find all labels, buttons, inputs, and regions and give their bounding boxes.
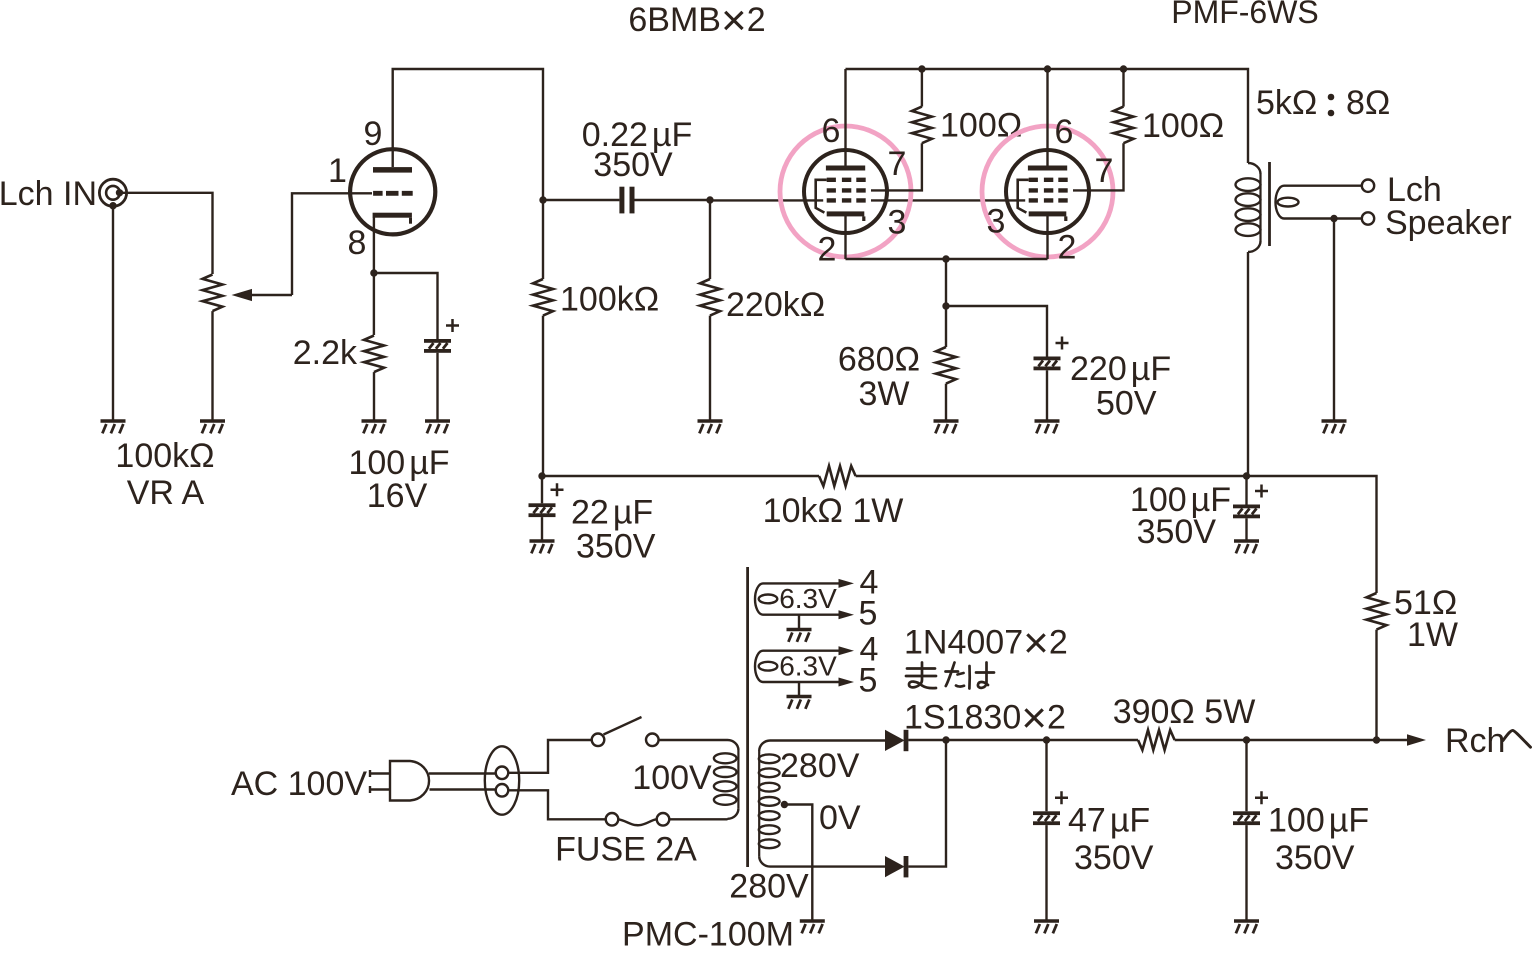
svg-text:350V: 350V bbox=[1275, 839, 1355, 877]
svg-text:Lch IN: Lch IN bbox=[0, 175, 97, 213]
svg-text:100kΩ: 100kΩ bbox=[115, 437, 214, 475]
node plate/cap junction bbox=[539, 196, 546, 203]
tube V3 halo bbox=[982, 126, 1113, 257]
wire grid bus between tubes bbox=[871, 199, 1025, 201]
pentode V2 (6BMB) bbox=[804, 150, 887, 233]
capacitor 47uF 350V bbox=[1033, 791, 1068, 825]
node: jack sleeve dot bbox=[109, 202, 116, 209]
ground (heater 2) bbox=[787, 697, 812, 709]
wire 100uF top bbox=[1245, 740, 1247, 811]
wire 2.2k to ground bbox=[373, 372, 375, 421]
svg-text:5: 5 bbox=[859, 595, 878, 633]
svg-text:6: 6 bbox=[1055, 113, 1074, 151]
wire cathode bus bbox=[846, 258, 1048, 260]
wire fuse to primary bbox=[669, 818, 727, 820]
wire 220k to ground bbox=[709, 316, 711, 421]
wire secondary to ground bbox=[1333, 219, 1335, 422]
PT core bbox=[746, 567, 749, 867]
node cathode RC dot bbox=[942, 302, 949, 309]
svg-text:100kΩ: 100kΩ bbox=[560, 281, 659, 319]
label 5kΩ : 8Ω bbox=[1256, 84, 1390, 122]
PT primary winding bbox=[714, 740, 739, 819]
capacitor 100uF 350V (upper) bbox=[1233, 485, 1268, 519]
svg-text:350V: 350V bbox=[1137, 513, 1217, 551]
svg-text:350V: 350V bbox=[593, 146, 673, 184]
svg-text:1W: 1W bbox=[1407, 616, 1458, 654]
resistor 10kΩ 1W bbox=[819, 466, 856, 486]
svg-text:AC 100V: AC 100V bbox=[231, 765, 367, 803]
svg-text:50V: 50V bbox=[1096, 385, 1157, 423]
ground (220k) bbox=[698, 421, 723, 433]
wire cable to fuse bbox=[508, 790, 605, 819]
B+ mid rail right bbox=[856, 476, 1377, 593]
wire heater2 ground stub bbox=[798, 682, 800, 697]
wire plug to cable bbox=[429, 772, 496, 774]
wire jack to potentiometer top bbox=[120, 193, 213, 274]
wire upper 100uF to ground bbox=[1245, 518, 1247, 541]
OPT primary winding bbox=[1236, 163, 1261, 252]
wire V3 cathode lead bbox=[1046, 216, 1048, 260]
svg-text:100V: 100V bbox=[632, 759, 712, 797]
svg-text:390Ω 5W: 390Ω 5W bbox=[1113, 693, 1256, 731]
wire cathode junction to 2.2k bbox=[373, 273, 375, 335]
input jack J1 bbox=[99, 179, 126, 206]
node rail dot 3 bbox=[1120, 65, 1127, 72]
wire plate node down to 100k bbox=[542, 200, 544, 279]
wire grid bus into output tubes bbox=[710, 199, 823, 201]
wire center tap to ground bbox=[784, 805, 812, 922]
capacitor 22uF 350V bbox=[529, 483, 564, 517]
OPT secondary winding bbox=[1276, 186, 1362, 219]
wire heater1 ground stub bbox=[798, 615, 800, 630]
svg-text:8Ω: 8Ω bbox=[1346, 84, 1390, 122]
wire 22uF top bbox=[541, 476, 543, 503]
wire triode cathode down bbox=[373, 217, 375, 273]
resistor 51Ω 1W bbox=[1367, 593, 1387, 630]
svg-text:280V: 280V bbox=[729, 868, 809, 906]
svg-text:680Ω: 680Ω bbox=[838, 341, 920, 379]
wire V2 screen to 100R bbox=[871, 143, 922, 190]
speaker terminal top bbox=[1362, 180, 1374, 192]
heater winding 2 bbox=[755, 651, 839, 682]
wire V3 plate lead bbox=[1046, 69, 1048, 166]
resistor 2.2k bbox=[364, 336, 384, 373]
speaker terminal bottom bbox=[1362, 212, 1374, 224]
svg-text:9: 9 bbox=[364, 115, 383, 153]
svg-text:6.3V: 6.3V bbox=[779, 651, 837, 682]
resistor 100kΩ plate load bbox=[533, 279, 553, 316]
B+ output rail bbox=[908, 739, 1138, 741]
wire 47uF to ground bbox=[1045, 825, 1047, 921]
svg-text:280V: 280V bbox=[780, 747, 860, 785]
HV winding bottom wire bbox=[770, 865, 885, 867]
wire V3 screen to 100R bbox=[1073, 143, 1124, 190]
svg-text:6.3V: 6.3V bbox=[779, 583, 837, 614]
svg-text:220kΩ: 220kΩ bbox=[726, 286, 825, 324]
ground (potentiometer) bbox=[200, 421, 225, 433]
heater winding 1 bbox=[755, 583, 839, 614]
diode D2 bbox=[885, 856, 908, 877]
wire 100uF to ground bbox=[1245, 825, 1247, 921]
svg-text:1S1830×2: 1S1830×2 bbox=[904, 694, 1066, 743]
wire grid node down to 220k bbox=[709, 200, 711, 279]
node mid rail right dot bbox=[1243, 472, 1250, 479]
svg-text:3: 3 bbox=[888, 204, 907, 242]
svg-text:350V: 350V bbox=[1074, 839, 1154, 877]
label Rch-he bbox=[1445, 722, 1531, 760]
B+ top rail bbox=[846, 69, 1249, 163]
svg-text:0V: 0V bbox=[819, 799, 861, 837]
svg-text:350V: 350V bbox=[576, 528, 656, 566]
node center tap dot bbox=[781, 801, 788, 808]
arrow to pin 4 bbox=[839, 579, 855, 588]
svg-text:5kΩ: 5kΩ bbox=[1256, 84, 1317, 122]
B+ output rail right bbox=[1175, 739, 1407, 741]
wire cathode down bbox=[945, 259, 947, 306]
svg-text:Rch: Rch bbox=[1445, 722, 1505, 760]
label mataha (or) bbox=[906, 663, 994, 689]
svg-text:16V: 16V bbox=[367, 477, 428, 515]
wire 47uF top bbox=[1045, 740, 1047, 811]
HV winding top wire bbox=[770, 739, 885, 741]
OPT core bbox=[1268, 162, 1271, 246]
fuse F1 bbox=[606, 813, 670, 826]
ground (680R) bbox=[934, 421, 959, 433]
svg-text:3W: 3W bbox=[859, 375, 910, 413]
wire 220uF to ground bbox=[1046, 370, 1048, 421]
ground (center tap) bbox=[800, 921, 825, 933]
B+ mid rail bbox=[542, 475, 819, 477]
wire wiper to triode grid bbox=[292, 193, 372, 295]
ground (upper 100uF) bbox=[1234, 541, 1259, 553]
wire plug to cable lower bbox=[430, 788, 497, 790]
cable oval bbox=[485, 746, 519, 814]
node rectifier output dot bbox=[942, 736, 949, 743]
svg-text:100Ω: 100Ω bbox=[1142, 107, 1224, 145]
ground (100uF 16V) bbox=[425, 421, 450, 433]
ground (heater 1) bbox=[787, 630, 812, 642]
ground (22uF) bbox=[530, 541, 555, 553]
wire pot bottom to ground bbox=[211, 311, 213, 421]
node cathode junction bbox=[370, 269, 377, 276]
arrow to pin 5 bbox=[839, 610, 855, 619]
wire V2 plate lead bbox=[844, 69, 846, 166]
node 100uF tap dot bbox=[1243, 736, 1250, 743]
svg-text:3: 3 bbox=[987, 203, 1006, 241]
ground (lower 100uF) bbox=[1234, 921, 1259, 933]
ground (input jack) bbox=[101, 421, 126, 433]
triode V1 (6BMB triode section) bbox=[350, 149, 435, 234]
node cathode bus dot bbox=[942, 255, 949, 262]
arrow to pin 4 bbox=[839, 646, 855, 655]
svg-text:7: 7 bbox=[888, 145, 907, 183]
ground (speaker) bbox=[1322, 421, 1347, 433]
wire to 220uF bbox=[946, 306, 1047, 357]
wire 100R to rail bbox=[921, 69, 923, 107]
wire junction to coupling cap bbox=[543, 199, 619, 201]
wire switch to primary bbox=[659, 739, 728, 741]
resistor 390Ω 5W bbox=[1138, 730, 1175, 750]
node rail dot 2 bbox=[1044, 65, 1051, 72]
svg-text:6: 6 bbox=[822, 112, 841, 150]
resistor 100Ω (V2 screen) bbox=[912, 107, 932, 144]
wire cable to switch bbox=[508, 740, 591, 773]
resistor 100Ω (V3 screen) bbox=[1114, 107, 1134, 144]
node secondary ground dot bbox=[1330, 215, 1337, 222]
wire 100uF to ground bbox=[436, 353, 438, 421]
ground (220uF) bbox=[1035, 421, 1060, 433]
wire 680R to ground bbox=[945, 384, 947, 421]
wire 51R to lower rail bbox=[1375, 630, 1377, 740]
svg-text:8: 8 bbox=[348, 224, 367, 262]
svg-text:2: 2 bbox=[1058, 229, 1077, 267]
node 51R tap dot bbox=[1373, 736, 1380, 743]
HV winding bbox=[759, 741, 780, 867]
wire V2 cathode lead bbox=[844, 216, 846, 260]
svg-text:47µF: 47µF bbox=[1068, 802, 1150, 840]
tube V2 halo bbox=[780, 126, 911, 257]
capacitor 0.22uF bbox=[619, 187, 634, 214]
svg-text:2.2k: 2.2k bbox=[293, 334, 358, 372]
ground (2.2k) bbox=[362, 421, 387, 433]
wire cathode junction to 100uF bbox=[374, 273, 438, 339]
wire cap to grid node bbox=[635, 199, 711, 201]
capacitor 100uF 16V bbox=[424, 319, 459, 353]
wire upper 100uF top bbox=[1245, 476, 1247, 505]
svg-text:1: 1 bbox=[328, 152, 347, 190]
pot wiper arrow bbox=[232, 289, 293, 301]
wire 22uF to ground bbox=[541, 517, 543, 541]
svg-text:2: 2 bbox=[818, 231, 837, 269]
cable core bottom bbox=[496, 784, 509, 797]
svg-text:7: 7 bbox=[1095, 152, 1114, 190]
wire OPT primary to B+ rail bbox=[1247, 252, 1249, 476]
node rail dot 1 bbox=[918, 65, 925, 72]
diode D1 bbox=[885, 730, 908, 751]
svg-text:FUSE 2A: FUSE 2A bbox=[555, 831, 697, 869]
node 47uF tap dot bbox=[1043, 736, 1050, 743]
wire 100k to B+ rail bbox=[542, 316, 544, 476]
svg-text:5: 5 bbox=[859, 662, 878, 700]
resistor 220kΩ bbox=[700, 279, 720, 316]
arrow to Rch bbox=[1407, 734, 1426, 745]
resistor 680Ω 3W bbox=[936, 347, 956, 384]
svg-text:100µF: 100µF bbox=[1268, 802, 1369, 840]
pentode V3 (6BMB) bbox=[1006, 150, 1089, 233]
svg-text:PMF-6WS: PMF-6WS bbox=[1171, 0, 1319, 30]
wire triode plate to top corner bbox=[393, 69, 543, 200]
svg-text:Speaker: Speaker bbox=[1385, 204, 1512, 242]
capacitor 100uF 350V (lower) bbox=[1233, 791, 1268, 825]
svg-text:6BMB×2: 6BMB×2 bbox=[628, 0, 765, 45]
wire D2 to D1 node bbox=[908, 740, 946, 867]
switch S1 bbox=[592, 717, 659, 746]
wire to 680R bbox=[945, 306, 947, 347]
cable core top bbox=[496, 767, 509, 780]
svg-text:1N4007×2: 1N4007×2 bbox=[904, 619, 1068, 668]
ground (47uF) bbox=[1034, 921, 1059, 933]
wire 100R to rail bbox=[1122, 69, 1124, 107]
wire jack to ground bbox=[112, 206, 114, 421]
svg-text:VR A: VR A bbox=[127, 474, 205, 512]
capacitor 220uF 50V bbox=[1034, 337, 1069, 371]
arrow to pin 5 bbox=[839, 678, 855, 687]
node grid bus junction bbox=[706, 196, 713, 203]
svg-text:PMC-100M: PMC-100M bbox=[622, 916, 794, 954]
svg-text:10kΩ 1W: 10kΩ 1W bbox=[763, 492, 904, 530]
svg-text:22µF: 22µF bbox=[571, 494, 653, 532]
svg-text:220µF: 220µF bbox=[1070, 350, 1171, 388]
potentiometer VR 100k body bbox=[203, 275, 223, 312]
node mid rail left dot bbox=[538, 472, 545, 479]
AC plug bbox=[370, 761, 429, 801]
